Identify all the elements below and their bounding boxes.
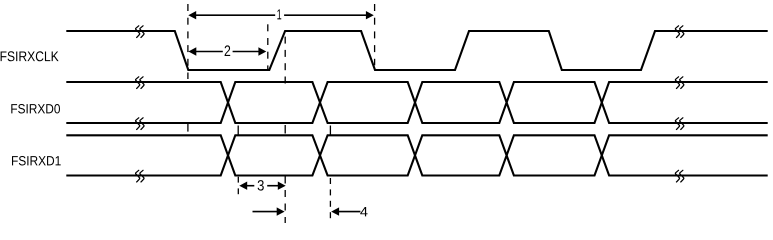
break mark RXD0 bottom left [136,118,144,130]
FSIRXD0 bus rail A [66,82,767,123]
dimension arrow 1 shaft right [284,14,367,16]
dimension arrow 4 right pointer shaft [339,211,361,213]
dashed tick D5 below RXD1 [237,177,239,183]
dimension arrow 1 shaft left [196,14,276,16]
dimension arrow 3 shaft right [267,185,278,187]
break mark RXD1 bottom left [136,170,144,182]
dashed line D1 at clock fall (upper run) [187,4,189,11]
label 2 [225,45,231,56]
dimension arrow 2 head left [188,47,196,55]
FSIRXD0 bus rail B [66,82,767,123]
FSIRXD1 bus rail B [66,135,767,175]
FSIRXCLK clock waveform [66,31,767,70]
break mark RXD0 bottom right [675,118,683,130]
dimension arrow 3 head right [278,182,286,190]
dashed tick D6 between buses [329,126,331,135]
dimension arrow 2 shaft right [233,51,260,53]
dimension arrow 2 head right [258,47,266,55]
signal label FSIRXD0 [11,104,60,114]
label 4 [360,207,367,216]
break mark RXD1 bottom right [675,170,683,182]
dashed line D3 below RXD1 [284,177,286,184]
break mark clock left [136,26,144,38]
dimension arrow 4 right pointer head [331,207,339,215]
dashed line D3 tick between buses [284,125,286,134]
break mark clock right [675,26,683,38]
break mark RXD0 top left [136,77,144,89]
dashed line D3 at clock rise top (clock to RXD0) [284,37,286,44]
dimension arrow 2 shaft left [196,51,223,53]
dashed line D6 below RXD1 [329,178,331,184]
label 3 [258,180,264,191]
FSIRXD1 bus rail A [66,135,767,175]
label 1 [277,9,281,19]
dimension arrow 3 shaft left [247,185,255,187]
dashed tick D5 between buses [237,126,239,135]
dashed line D1 tick between buses [187,124,189,132]
dimension arrow 1 head left [188,11,196,19]
dashed line D4 at second clock fall [374,4,376,11]
dimension arrow 4 left pointer head [277,207,285,215]
signal label FSIRXD1 [12,156,61,166]
signal label FSIRXCLK [1,51,59,61]
break mark RXD0 top right [675,77,683,89]
dimension arrow 4 left pointer shaft [253,211,278,213]
dimension arrow 3 head left [239,182,247,190]
dashed line D2 at clock rise start [267,24,269,31]
dimension arrow 1 head right [366,11,374,19]
